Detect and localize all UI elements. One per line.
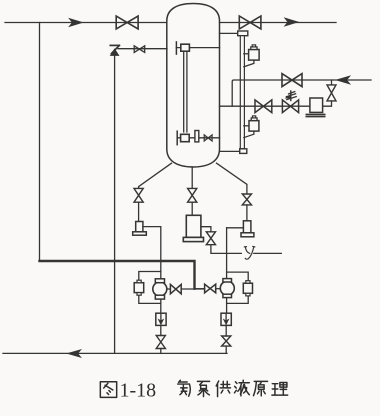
svg-text:1-18: 1-18 bbox=[120, 380, 157, 402]
